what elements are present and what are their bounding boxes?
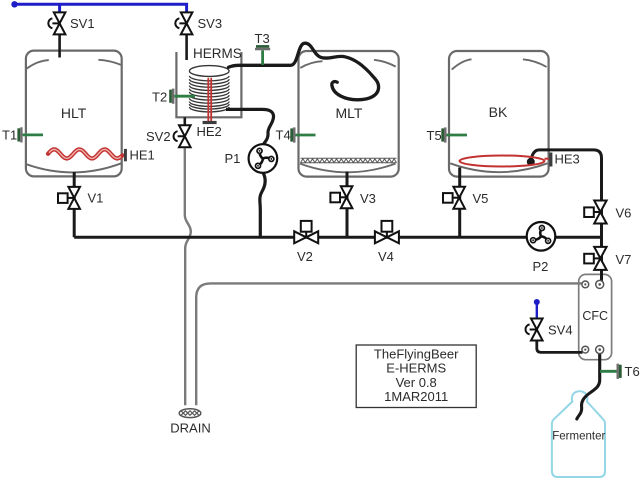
valve SV3 — [175, 12, 192, 34]
svg-text:V5: V5 — [473, 191, 489, 206]
CFC ports — [582, 280, 604, 353]
SV4 blue stem — [536, 303, 538, 320]
svg-text:SV2: SV2 — [146, 129, 171, 144]
SV2 inlet stem from HERMS bottom — [184, 117, 187, 126]
drain pipe from SV2 (gray, with jog over manifold) — [185, 148, 191, 405]
valve V2 (horizontal) — [294, 221, 318, 243]
valve SV4 — [526, 319, 543, 341]
pump P1 — [248, 144, 277, 173]
svg-text:P2: P2 — [533, 259, 549, 274]
supply dot — [11, 1, 17, 7]
HERMS coil — [189, 66, 229, 112]
HLT outlet pipe through V1 — [73, 172, 76, 237]
HE2 terminal bar — [203, 121, 217, 124]
svg-text:V3: V3 — [360, 191, 376, 206]
valve V1 — [58, 187, 80, 209]
svg-text:SV4: SV4 — [548, 323, 573, 338]
SV1 outlet pipe into HLT — [58, 34, 61, 57]
MLT false bottom — [301, 158, 397, 163]
water supply line (blue) — [15, 4, 187, 12]
title box — [356, 345, 476, 408]
SV4 to CFC pipe — [537, 341, 583, 352]
valve V6 — [584, 201, 606, 224]
MLT outlet pipe through V3 — [346, 172, 349, 238]
main manifold — [74, 236, 600, 239]
BK outlet pipe through V5 — [458, 168, 461, 238]
P1 outlet hose down to manifold — [260, 172, 265, 237]
svg-text:Ver 0.8: Ver 0.8 — [396, 375, 437, 390]
svg-text:V7: V7 — [616, 252, 632, 267]
svg-text:TheFlyingBeer: TheFlyingBeer — [374, 347, 459, 362]
SV3 outlet pipe into HERMS — [185, 34, 188, 60]
sensor T3 (pointing down) — [255, 45, 270, 65]
svg-text:V6: V6 — [616, 206, 632, 221]
svg-text:1MAR2011: 1MAR2011 — [384, 389, 448, 404]
fermenter — [552, 391, 605, 477]
sensor T6 (bar on right) — [600, 364, 622, 379]
BK pickup tube to V6/V7 and CFC — [531, 150, 602, 281]
svg-text:V1: V1 — [88, 191, 104, 206]
valve SV1 — [48, 12, 65, 34]
drain symbol — [179, 409, 201, 418]
HERMS vessel — [176, 52, 241, 117]
sensor T2 — [169, 89, 195, 104]
svg-text:CFC: CFC — [582, 309, 608, 323]
svg-text:T4: T4 — [276, 128, 291, 143]
svg-text:T2: T2 — [152, 90, 167, 105]
svg-text:HLT: HLT — [61, 105, 87, 121]
svg-text:T6: T6 — [625, 364, 640, 379]
HLT tank body — [26, 51, 122, 177]
sensor T5 — [441, 127, 467, 142]
svg-text:HE3: HE3 — [555, 152, 580, 167]
HE1 heating element in HLT — [48, 149, 123, 158]
BK pickup inlet dot — [527, 158, 535, 166]
title text — [374, 347, 459, 404]
pump P2 — [527, 222, 556, 251]
svg-text:Fermenter: Fermenter — [552, 431, 605, 443]
HE3 heating element in BK — [460, 156, 550, 167]
HE3 terminal bar — [549, 153, 552, 167]
svg-text:HE1: HE1 — [130, 148, 155, 163]
BK tank body — [449, 51, 549, 177]
valve V4 (horizontal) — [375, 221, 399, 243]
HE1 terminal bar — [124, 149, 127, 161]
CFC body — [579, 274, 612, 359]
svg-text:BK: BK — [489, 104, 508, 120]
svg-text:E-HERMS: E-HERMS — [386, 361, 446, 376]
black pipes — [60, 34, 602, 419]
svg-text:MLT: MLT — [336, 105, 363, 121]
CFC out hose to fermenter — [577, 353, 600, 420]
HERMS coil out pipe + hose over MLT — [229, 43, 379, 100]
valve SV2 — [174, 125, 191, 147]
svg-text:T1: T1 — [2, 128, 17, 143]
HERMS coil lower out pipe to P1 — [226, 109, 274, 145]
svg-text:V4: V4 — [378, 249, 394, 264]
MLT tank body — [299, 51, 399, 177]
valve V5 — [443, 187, 465, 209]
sensor T1 — [17, 127, 43, 142]
svg-text:SV3: SV3 — [198, 16, 223, 31]
valve V7 — [584, 247, 606, 270]
svg-text:T5: T5 — [427, 128, 442, 143]
sensor T4 — [290, 127, 315, 142]
valve V3 — [330, 186, 352, 208]
svg-text:V2: V2 — [297, 249, 313, 264]
svg-text:DRAIN: DRAIN — [170, 421, 210, 436]
svg-text:HERMS: HERMS — [193, 46, 242, 61]
svg-text:T3: T3 — [255, 31, 270, 46]
svg-text:P1: P1 — [225, 151, 241, 166]
CFC cooling water out pipe to drain (gray) — [196, 283, 582, 405]
svg-text:HE2: HE2 — [197, 124, 222, 139]
svg-text:SV1: SV1 — [70, 16, 95, 31]
HE2 heating element in HERMS coil — [208, 79, 211, 122]
